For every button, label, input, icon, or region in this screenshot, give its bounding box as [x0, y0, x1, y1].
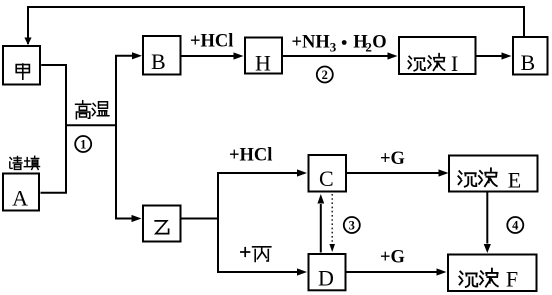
arrowhead into 沉淀F: [437, 268, 447, 275]
box 乙: [143, 206, 181, 242]
box 甲: [3, 46, 40, 85]
svg-text:2: 2: [322, 68, 328, 82]
svg-text:B: B: [151, 49, 166, 74]
circled label ①: [75, 136, 91, 152]
glyph 甲: [16, 64, 29, 79]
arrowhead into D: [297, 268, 307, 275]
wire C to 沉淀E: [347, 172, 439, 174]
arrowhead into 沉淀I: [388, 52, 398, 59]
glyph 沉 (box E): [458, 171, 476, 186]
svg-text:1: 1: [80, 137, 86, 151]
box A: [3, 174, 39, 211]
label 请填: [10, 156, 40, 169]
glyph 乙: [155, 221, 168, 234]
wire split vertical to B and 乙: [116, 56, 132, 219]
svg-text:+G: +G: [380, 149, 405, 169]
glyph 淀 (box E): [479, 168, 497, 186]
svg-text:+HCl: +HCl: [190, 32, 233, 52]
svg-text:A: A: [12, 186, 28, 211]
svg-text:3: 3: [330, 40, 337, 55]
arrowhead into 沉淀E: [439, 169, 449, 176]
svg-text:B: B: [520, 50, 535, 75]
label 高温: [76, 101, 109, 119]
box B left: [143, 36, 181, 75]
wire feedback loop B2 to 甲: [28, 7, 524, 44]
arrowhead into H: [234, 52, 244, 59]
box 沉淀I: [399, 37, 476, 74]
svg-text:+HCl: +HCl: [229, 146, 272, 166]
arrow D to C solid up: [320, 204, 322, 253]
svg-text:4: 4: [512, 218, 519, 232]
circled label ④: [507, 217, 523, 233]
wire branch vertical to C and D: [218, 173, 297, 272]
box D: [309, 254, 346, 290]
arrow C to D dotted down: [331, 194, 333, 243]
svg-text:H: H: [255, 51, 271, 76]
svg-text:E: E: [508, 168, 521, 193]
circled label ②: [317, 67, 333, 83]
svg-text:+NH: +NH: [292, 33, 331, 53]
circled label ③: [344, 217, 360, 233]
wire H to 沉淀I: [283, 55, 388, 57]
box H: [245, 38, 282, 74]
label +丙: [241, 248, 250, 257]
svg-text:+G: +G: [380, 248, 405, 268]
wire 乙 to branch vertical: [182, 218, 219, 220]
arrow 沉淀E to 沉淀F: [486, 193, 488, 244]
box B right: [513, 37, 548, 75]
svg-text:O: O: [372, 33, 386, 53]
glyph 淀 (box F): [480, 269, 498, 287]
wire B to H: [182, 55, 234, 57]
arrowhead into 甲 top: [24, 38, 31, 46]
svg-text:3: 3: [349, 218, 355, 232]
wire 甲 to junction to A: [41, 65, 67, 193]
svg-text:2: 2: [365, 40, 372, 55]
arrowhead into 乙: [132, 215, 142, 222]
glyph 沉 (box F): [459, 272, 477, 287]
svg-text:F: F: [506, 266, 518, 291]
wire 沉淀I to B2: [477, 55, 502, 57]
wire D to 沉淀F: [347, 271, 437, 273]
arrowhead into C: [297, 169, 307, 176]
glyph 沉 (box I): [408, 56, 425, 70]
box C: [309, 155, 347, 192]
glyph 淀 (box I): [428, 54, 445, 71]
arrowhead into B: [132, 52, 142, 59]
svg-text:C: C: [319, 166, 334, 191]
svg-text:D: D: [318, 265, 334, 290]
wire bridge under 高温: [66, 124, 116, 126]
box 沉淀E: [449, 156, 538, 192]
arrowhead into B2: [502, 52, 512, 59]
box 沉淀F: [448, 255, 537, 292]
svg-text:I: I: [451, 51, 458, 76]
